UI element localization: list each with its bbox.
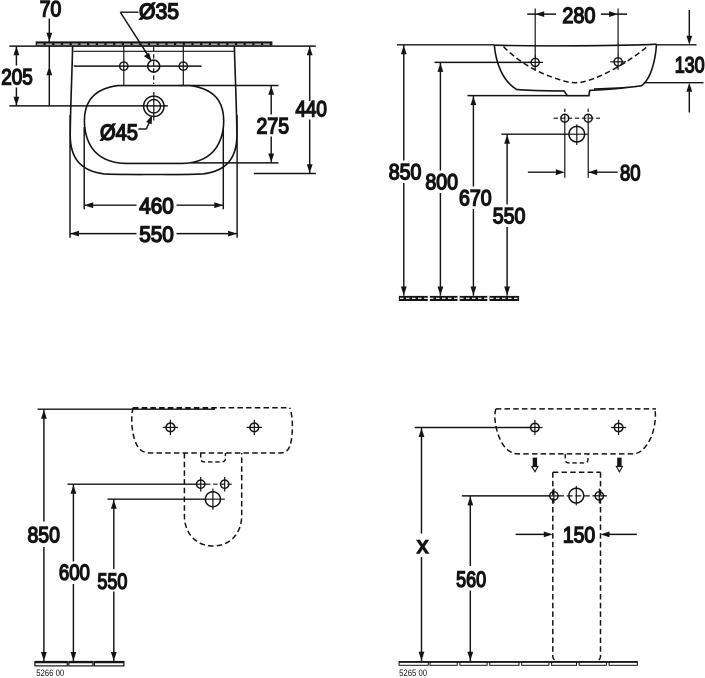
dimension 275 bbox=[178, 85, 278, 87]
drain trap circle (front) bbox=[205, 492, 220, 507]
reference line 600 bbox=[68, 483, 197, 485]
dimension 440 bbox=[254, 173, 316, 175]
svg-text:130: 130 bbox=[675, 52, 705, 77]
svg-text:850: 850 bbox=[389, 160, 422, 185]
dimension 550 (side) bbox=[501, 133, 569, 135]
right wall-mount hole (front) bbox=[250, 423, 259, 432]
QUADRANT3 bbox=[28, 408, 293, 678]
svg-text:800: 800 bbox=[425, 170, 458, 195]
wall reference line (solid) bbox=[38, 408, 216, 410]
svg-text:Ø35: Ø35 bbox=[139, 0, 179, 24]
dimension 205 bbox=[15, 46, 17, 65]
svg-text:560: 560 bbox=[456, 567, 486, 592]
drain trap circle bbox=[569, 126, 585, 142]
wall line bbox=[10, 45, 316, 47]
right wall-mount hole (side rear) bbox=[614, 423, 623, 432]
svg-text:150: 150 bbox=[563, 523, 595, 548]
dimension 460 bbox=[83, 127, 85, 209]
svg-text:280: 280 bbox=[562, 3, 595, 28]
basin rim back edge bbox=[74, 50, 235, 52]
drain center circle (pedestal) bbox=[569, 488, 584, 503]
mounting direction arrow right bbox=[615, 458, 623, 473]
center faucet hole bbox=[153, 47, 155, 84]
dimension 550 (front) bbox=[113, 499, 115, 569]
floor bar (front) bbox=[35, 662, 124, 666]
reference line 560 + centerline bbox=[462, 495, 550, 497]
svg-text:205: 205 bbox=[1, 65, 33, 90]
QUADRANT2 bbox=[389, 3, 705, 301]
dimension 600 (front) bbox=[72, 484, 74, 561]
dimension 280 bbox=[534, 9, 536, 59]
left wall-mount hole bbox=[531, 58, 539, 66]
drain hole bbox=[153, 92, 155, 121]
drain fitting small holes bbox=[554, 117, 601, 119]
svg-text:80: 80 bbox=[620, 161, 641, 186]
svg-text:70: 70 bbox=[40, 0, 62, 22]
svg-text:5266 00: 5266 00 bbox=[36, 668, 64, 678]
floor hatched bar (side) bbox=[399, 296, 519, 301]
svg-text:550: 550 bbox=[97, 569, 127, 594]
svg-text:550: 550 bbox=[493, 203, 526, 228]
left faucet hole bbox=[123, 46, 125, 86]
dimension 130 bbox=[657, 44, 697, 46]
overflow stub (dashed, side) bbox=[565, 454, 588, 463]
basin side-view outline bbox=[494, 44, 656, 46]
svg-text:Ø45: Ø45 bbox=[100, 120, 138, 145]
basin rear outline (dashed) bbox=[132, 408, 293, 453]
dimension 80 bbox=[528, 171, 556, 173]
svg-text:670: 670 bbox=[459, 186, 492, 211]
svg-text:x: x bbox=[417, 532, 429, 558]
basin outer outline bbox=[70, 46, 237, 174]
pedestal fixing holes bbox=[550, 492, 558, 500]
siphon cover (dashed) bbox=[184, 453, 241, 546]
right wall-mount hole bbox=[614, 58, 622, 66]
left wall-mount hole (front) bbox=[166, 423, 175, 432]
dimension 850 (side) bbox=[397, 44, 494, 46]
dimension 670 (side) bbox=[467, 95, 567, 97]
QUADRANT4 bbox=[399, 409, 656, 678]
svg-text:600: 600 bbox=[59, 560, 90, 585]
dimension x bbox=[415, 427, 531, 429]
dimension 550 bbox=[69, 115, 71, 238]
QUADRANT1 bbox=[1, 0, 327, 247]
dimension 560 bbox=[469, 496, 471, 566]
faucet holes centerline row bbox=[74, 65, 202, 67]
dimension 800 (side) bbox=[435, 61, 532, 63]
left wall-mount hole (side rear) bbox=[531, 423, 540, 432]
dimension 70 bbox=[48, 19, 50, 42]
wall mounting rail bbox=[36, 41, 273, 45]
basin interior dashed curve bbox=[504, 46, 648, 82]
overflow stub (dashed) bbox=[201, 453, 226, 462]
basin rear top edge (dashed) bbox=[133, 407, 290, 409]
floor line (side with pedestal) bbox=[399, 662, 637, 666]
svg-text:5265 00: 5265 00 bbox=[399, 668, 427, 678]
fixing holes (front) bbox=[200, 477, 202, 492]
svg-text:275: 275 bbox=[257, 114, 290, 139]
mounting direction arrow left bbox=[531, 458, 539, 473]
basin inner bowl oval bbox=[84, 86, 223, 164]
dimension 850 (front) bbox=[43, 409, 45, 521]
svg-text:550: 550 bbox=[139, 222, 174, 247]
svg-text:460: 460 bbox=[139, 194, 174, 219]
reference line 550 bbox=[108, 498, 206, 500]
dimension 80 extension lines bbox=[564, 123, 566, 178]
svg-text:850: 850 bbox=[28, 523, 60, 548]
pedestal outline (dashed) bbox=[553, 471, 601, 473]
right faucet hole bbox=[182, 46, 184, 86]
basin rear top edge (dashed, side) bbox=[496, 408, 656, 410]
dimension 150 bbox=[516, 533, 550, 535]
basin bottom rim line bbox=[594, 86, 641, 89]
basin rear outline (dashed, side) bbox=[495, 409, 656, 454]
svg-text:440: 440 bbox=[295, 96, 327, 121]
